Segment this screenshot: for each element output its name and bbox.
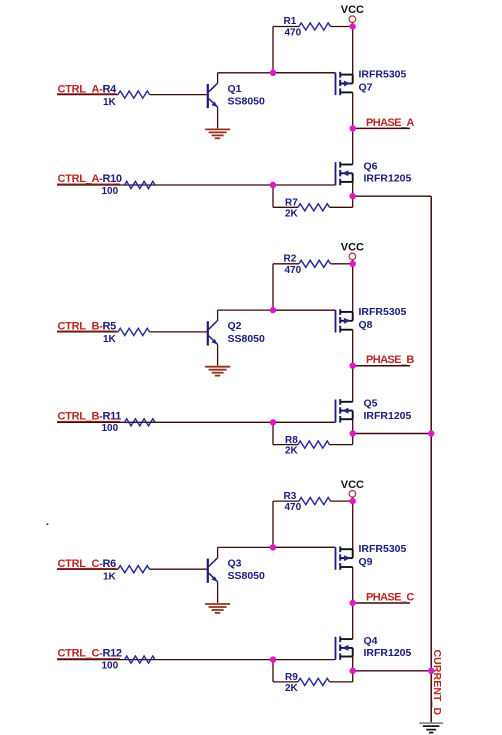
svg-text:VCC: VCC xyxy=(341,479,364,491)
svg-text:SS8050: SS8050 xyxy=(228,96,266,108)
svg-text:Q4: Q4 xyxy=(364,635,378,647)
svg-text:IRFR1205: IRFR1205 xyxy=(364,173,412,185)
svg-text:Q6: Q6 xyxy=(364,160,378,172)
svg-text:2K: 2K xyxy=(285,683,299,694)
svg-text:Q8: Q8 xyxy=(359,319,373,331)
svg-text:100: 100 xyxy=(102,660,119,671)
svg-text:1K: 1K xyxy=(103,97,117,108)
svg-text:Q9: Q9 xyxy=(359,556,373,568)
svg-text:CTRL_A-R10: CTRL_A-R10 xyxy=(58,173,122,185)
svg-text:PHASE_A: PHASE_A xyxy=(366,117,414,129)
svg-text:PHASE_B: PHASE_B xyxy=(366,354,414,366)
svg-text:2K: 2K xyxy=(285,208,299,219)
svg-text:470: 470 xyxy=(285,28,302,39)
svg-text:IRFR5305: IRFR5305 xyxy=(359,543,407,555)
svg-text:SS8050: SS8050 xyxy=(228,570,266,582)
svg-text:CTRL_B-R11: CTRL_B-R11 xyxy=(58,410,122,422)
svg-text:Q7: Q7 xyxy=(359,82,373,94)
svg-text:CTRL_A-R4: CTRL_A-R4 xyxy=(58,83,118,95)
svg-text:1K: 1K xyxy=(103,571,117,582)
svg-text:100: 100 xyxy=(102,423,119,434)
svg-text:IRFR5305: IRFR5305 xyxy=(359,306,407,318)
svg-text:R7: R7 xyxy=(285,198,298,209)
svg-text:R8: R8 xyxy=(285,435,298,446)
svg-text:CTRL_B-R5: CTRL_B-R5 xyxy=(58,321,117,333)
svg-text:R9: R9 xyxy=(285,672,298,683)
svg-text:2K: 2K xyxy=(285,446,299,457)
svg-text:CTRL_C-R6: CTRL_C-R6 xyxy=(58,558,117,570)
svg-text:Q5: Q5 xyxy=(364,398,378,410)
svg-text:R3: R3 xyxy=(284,491,297,502)
svg-text:VCC: VCC xyxy=(341,242,364,254)
svg-text:VCC: VCC xyxy=(341,4,364,16)
svg-text:CURRENT_D: CURRENT_D xyxy=(431,650,443,716)
svg-text:R1: R1 xyxy=(284,16,297,27)
svg-text:IRFR1205: IRFR1205 xyxy=(364,647,412,659)
svg-text:1K: 1K xyxy=(103,334,117,345)
svg-text:470: 470 xyxy=(285,265,302,276)
svg-text:PHASE_C: PHASE_C xyxy=(366,591,414,603)
svg-text:Q3: Q3 xyxy=(228,557,242,569)
svg-text:IRFR5305: IRFR5305 xyxy=(359,69,407,81)
svg-text:R2: R2 xyxy=(284,254,297,265)
svg-text:CTRL_C-R12: CTRL_C-R12 xyxy=(58,648,122,660)
svg-text:Q2: Q2 xyxy=(228,320,242,332)
svg-text:IRFR1205: IRFR1205 xyxy=(364,410,412,422)
svg-text:470: 470 xyxy=(285,502,302,513)
svg-text:100: 100 xyxy=(102,186,119,197)
svg-text:Q1: Q1 xyxy=(228,83,242,95)
svg-text:SS8050: SS8050 xyxy=(228,333,266,345)
